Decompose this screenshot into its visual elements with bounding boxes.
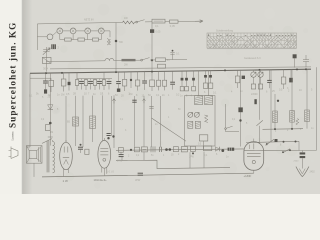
svg-text:1914 E+3+: 1914 E+3+ [94, 178, 108, 182]
svg-text:700: 700 [119, 41, 124, 44]
svg-text:30/4: 30/4 [43, 66, 49, 70]
svg-text:2x500: 2x500 [251, 93, 258, 96]
svg-text:1 W: 1 W [63, 179, 69, 183]
svg-text:+1/DF: +1/DF [244, 174, 252, 178]
svg-text:0,05: 0,05 [170, 24, 176, 28]
svg-text:2402: 2402 [310, 172, 316, 174]
svg-text:1W: 1W [124, 17, 128, 20]
svg-text:Schalterstellung: Schalterstellung [216, 29, 234, 32]
svg-text:0,05: 0,05 [156, 31, 161, 34]
svg-text:J700: J700 [117, 160, 123, 163]
svg-text:2500: 2500 [294, 161, 300, 163]
svg-text:JPW: JPW [189, 157, 195, 159]
svg-text:2W: 2W [124, 63, 128, 66]
svg-text:( 0 ) 0: ( 0 ) 0 [107, 169, 114, 173]
svg-text:Lorenz: Lorenz [10, 131, 14, 141]
svg-text:JPW: JPW [135, 179, 141, 182]
svg-text:0,1: 0,1 [176, 53, 180, 56]
svg-text:0,1: 0,1 [155, 24, 159, 28]
svg-text:Geratewert 6.3: Geratewert 6.3 [244, 57, 261, 60]
svg-text:NETZ 6V: NETZ 6V [84, 19, 94, 22]
svg-text:1M: 1M [61, 94, 64, 97]
svg-text:Supercelohet jun. KG: Supercelohet jun. KG [7, 22, 17, 128]
svg-text:1M: 1M [129, 93, 132, 96]
